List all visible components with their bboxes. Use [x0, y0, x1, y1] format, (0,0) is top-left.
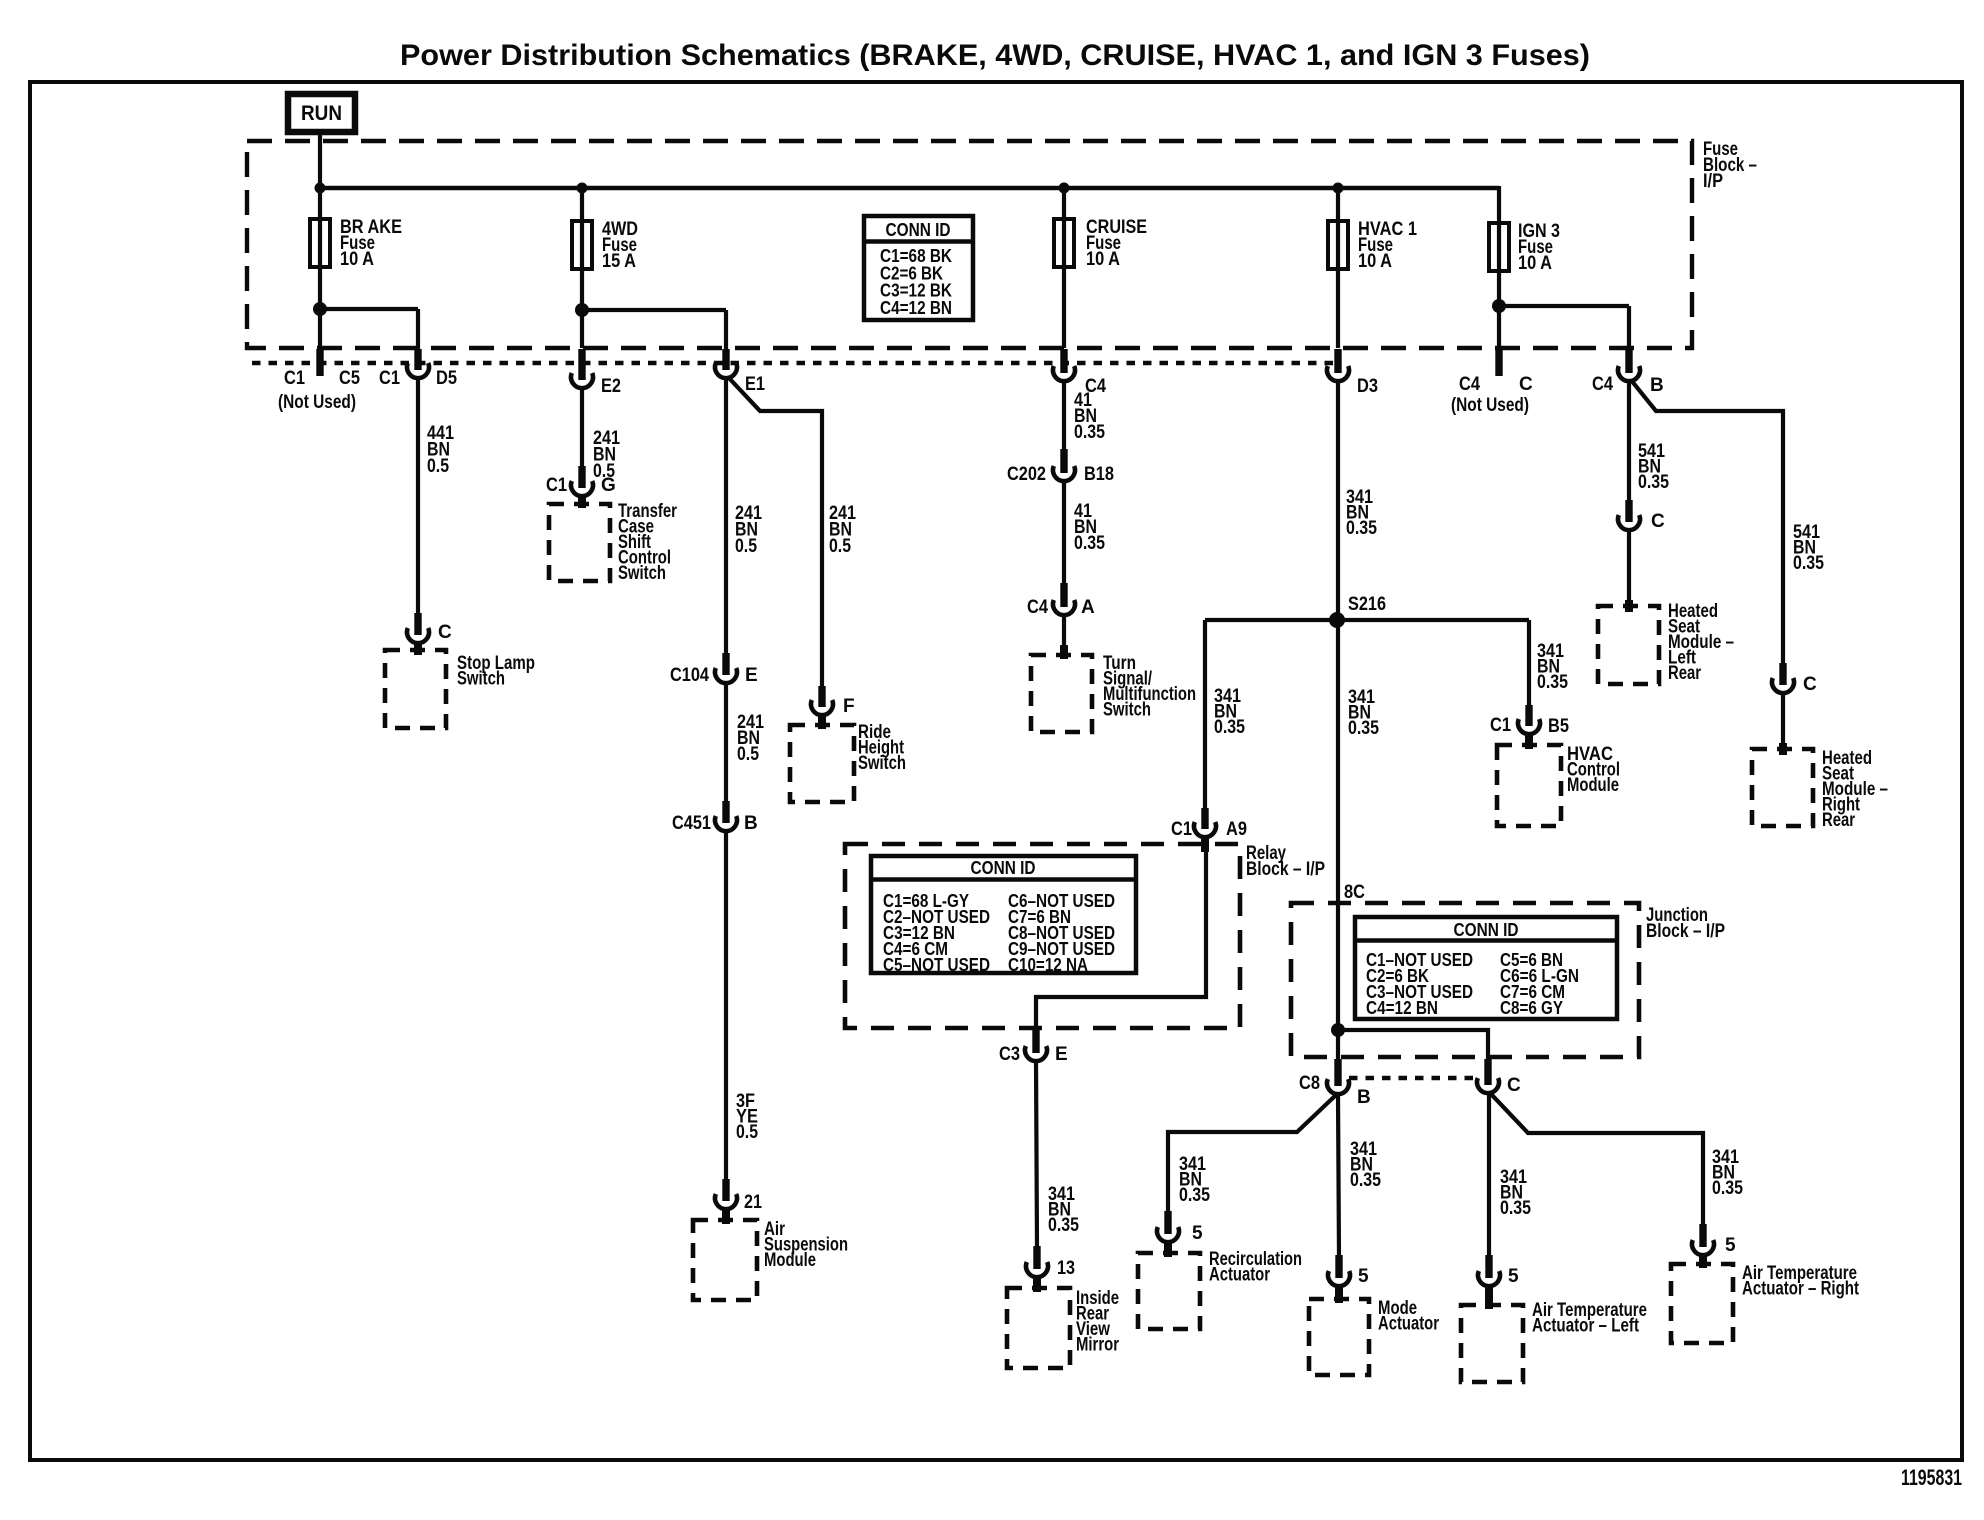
- pin stub into heated seat right: [1779, 743, 1787, 755]
- connector C4 A: [1053, 583, 1075, 615]
- CONN ID table fuse block: [864, 216, 973, 320]
- label 341 BN 0.35: [1500, 1167, 1531, 1219]
- svg-text:5: 5: [1358, 1266, 1369, 1287]
- svg-text:C1: C1: [379, 368, 400, 389]
- connector C451 B: [715, 801, 737, 831]
- connector C202 B18: [1053, 449, 1075, 481]
- label Air Suspension Module: [764, 1219, 848, 1271]
- svg-text:0.35: 0.35: [1179, 1185, 1210, 1206]
- svg-text:Switch: Switch: [457, 669, 505, 690]
- label 341 BN 0.35: [1346, 487, 1377, 539]
- connector F ride height: [811, 686, 833, 715]
- component Mode Actuator: [1309, 1299, 1369, 1375]
- svg-text:A9: A9: [1226, 819, 1247, 840]
- connector D3 (fuse block): [1327, 349, 1349, 381]
- svg-text:C: C: [1519, 374, 1533, 395]
- label Mode Actuator: [1378, 1298, 1439, 1335]
- svg-text:C3: C3: [999, 1044, 1020, 1065]
- bus wire inside fuse block: [318, 186, 1499, 190]
- dotted junction block connector line: [1349, 1076, 1477, 1080]
- connector pin 5 air temp right: [1692, 1224, 1714, 1255]
- svg-text:Rear: Rear: [1822, 810, 1855, 831]
- svg-text:0.35: 0.35: [1712, 1178, 1743, 1199]
- svg-text:0.35: 0.35: [1346, 518, 1377, 539]
- svg-text:5: 5: [1192, 1223, 1203, 1244]
- pin stub into transfer case switch: [578, 496, 586, 508]
- svg-text:(Not Used): (Not Used): [278, 392, 356, 413]
- label Recirculation Actuator: [1209, 1249, 1302, 1286]
- svg-text:C: C: [1507, 1075, 1521, 1096]
- wire into heated seat module left: [1627, 530, 1631, 608]
- connector C1 A9 relay block: [1194, 808, 1216, 837]
- svg-text:0.5: 0.5: [737, 744, 759, 765]
- pin stub C5 not used: [316, 349, 323, 376]
- label HVAC Control Module: [1567, 744, 1620, 796]
- label Junction Block - I/P: [1646, 905, 1725, 942]
- svg-text:C202: C202: [1007, 464, 1046, 485]
- svg-text:CONN ID: CONN ID: [971, 858, 1036, 878]
- connector pin 5 air temp left: [1478, 1255, 1500, 1286]
- svg-text:Module: Module: [764, 1250, 816, 1271]
- junction dot inside junction block: [1331, 1023, 1345, 1037]
- svg-text:Block – I/P: Block – I/P: [1646, 921, 1725, 942]
- svg-text:G: G: [601, 475, 616, 496]
- CONN ID table relay block: [871, 856, 1136, 975]
- svg-text:C4=12 BN: C4=12 BN: [1366, 998, 1438, 1018]
- wire HVAC 1 fuse leg: [1336, 188, 1340, 348]
- svg-text:C1: C1: [546, 475, 567, 496]
- pin stub into inside rear view mirror: [1033, 1277, 1041, 1292]
- CONN ID table junction block: [1355, 917, 1617, 1019]
- svg-text:Power Distribution Schematics: Power Distribution Schematics (BRAKE, 4W…: [400, 39, 1590, 72]
- pin stub into stop lamp switch: [414, 643, 422, 655]
- label Inside Rear View Mirror: [1076, 1288, 1119, 1356]
- connector pin 5 mode: [1328, 1255, 1350, 1286]
- svg-text:E1: E1: [745, 374, 765, 395]
- ignition switch RUN feed box: [288, 94, 355, 132]
- svg-text:C1: C1: [1171, 819, 1192, 840]
- wire E2 to transfer case switch: [580, 388, 584, 468]
- svg-text:C4: C4: [1459, 374, 1480, 395]
- wire B to mode actuator: [1338, 1095, 1339, 1257]
- svg-text:CONN ID: CONN ID: [1454, 920, 1519, 940]
- svg-text:B: B: [1357, 1087, 1371, 1108]
- connector pin 13: [1026, 1246, 1048, 1277]
- component Ride Height Switch: [790, 725, 854, 802]
- pin stub into air temp right: [1699, 1255, 1707, 1268]
- svg-text:C8=6 GY: C8=6 GY: [1500, 998, 1563, 1018]
- fuse F HVAC 1 10A: [1328, 221, 1348, 269]
- component HVAC Control Module: [1497, 745, 1561, 826]
- svg-text:10 A: 10 A: [1358, 251, 1392, 272]
- svg-text:Actuator: Actuator: [1209, 1265, 1270, 1286]
- component Air Suspension Module: [693, 1220, 757, 1300]
- connector C junction block: [1477, 1059, 1499, 1093]
- connector E2 (fuse block): [571, 349, 593, 388]
- splice S216: [1329, 612, 1345, 628]
- svg-text:15 A: 15 A: [602, 251, 636, 272]
- wire S216 crossbar: [1205, 618, 1529, 622]
- connector C104 E: [715, 653, 737, 683]
- wire C4 to C202: [1062, 381, 1066, 450]
- label 341 BN 0.35: [1179, 1154, 1210, 1206]
- wire 4WD fuse leg: [580, 188, 584, 348]
- pin stub relay block entry: [1201, 837, 1209, 852]
- svg-text:0.35: 0.35: [1074, 422, 1105, 443]
- svg-text:0.35: 0.35: [1074, 533, 1105, 554]
- label Air Temperature Actuator Right: [1742, 1263, 1860, 1300]
- svg-text:C104: C104: [670, 665, 709, 686]
- svg-text:Actuator: Actuator: [1378, 1314, 1439, 1335]
- wire into heated seat module right: [1781, 693, 1785, 751]
- fuse F IGN 3 10A: [1489, 223, 1509, 271]
- svg-text:B: B: [1650, 375, 1664, 396]
- svg-text:C4: C4: [1027, 597, 1048, 618]
- wire B diagonal to heated seat right rear: [1631, 380, 1783, 665]
- label 341 BN 0.35: [1214, 686, 1245, 738]
- svg-text:D3: D3: [1357, 376, 1378, 397]
- wire into turn signal switch: [1062, 615, 1066, 652]
- label 341 BN 0.35: [1048, 1184, 1079, 1236]
- label 3F YE 0.5: [736, 1091, 758, 1143]
- connector C heated seat left: [1618, 500, 1640, 530]
- svg-text:C4=12 BN: C4=12 BN: [880, 298, 952, 318]
- label 41 BN 0.35: [1074, 501, 1105, 554]
- label BRAKE Fuse 10 A: [340, 217, 402, 270]
- wire C202 to C4 A: [1062, 481, 1066, 584]
- svg-text:C1: C1: [1490, 715, 1511, 736]
- component Air Temperature Actuator - Right: [1671, 1264, 1733, 1343]
- wire CRUISE fuse leg: [1062, 188, 1066, 348]
- label CRUISE Fuse 10 A: [1086, 217, 1147, 270]
- wire junction block crossbar: [1338, 1030, 1488, 1062]
- wire C to air temperature actuator left: [1487, 1094, 1491, 1257]
- component Transfer Case Shift Control Switch: [549, 504, 610, 581]
- svg-text:0.35: 0.35: [1638, 472, 1669, 493]
- connector C heated seat right: [1772, 663, 1794, 693]
- wire inside relay block: [1036, 850, 1206, 1035]
- junction dot bus/BRAKE: [315, 183, 326, 194]
- svg-text:21: 21: [744, 1192, 762, 1213]
- svg-text:I/P: I/P: [1703, 171, 1723, 192]
- svg-text:S216: S216: [1348, 594, 1386, 615]
- svg-text:0.5: 0.5: [829, 536, 851, 557]
- wire D3 down to junction block: [1336, 381, 1340, 1062]
- wire 4WD branch to E1: [582, 310, 726, 352]
- junction dot IGN 3 branch: [1492, 299, 1506, 313]
- wire C3 to inside rear view mirror: [1036, 1061, 1037, 1247]
- svg-text:10 A: 10 A: [1086, 249, 1120, 270]
- label HVAC 1 Fuse 10 A: [1358, 219, 1417, 272]
- svg-text:CONN ID: CONN ID: [886, 220, 951, 240]
- svg-text:10 A: 10 A: [340, 249, 374, 270]
- svg-text:Mirror: Mirror: [1076, 1335, 1119, 1356]
- relay block I/P dashed outline: [845, 844, 1240, 1028]
- pin stub into heated seat left: [1625, 600, 1633, 612]
- label 541 BN 0.35: [1793, 522, 1824, 574]
- label 241 BN 0.5: [593, 428, 620, 482]
- label IGN 3 Fuse 10 A: [1518, 221, 1560, 274]
- wire C to air temperature actuator right: [1491, 1094, 1703, 1226]
- label Relay Block - I/P: [1246, 843, 1325, 880]
- wire from RUN to bus: [318, 132, 322, 190]
- label 4WD Fuse 15 A: [602, 219, 638, 272]
- svg-text:C5–NOT USED: C5–NOT USED: [883, 955, 990, 975]
- label Transfer Case Shift Control Switch: [618, 501, 677, 584]
- svg-text:1195831: 1195831: [1901, 1465, 1962, 1490]
- svg-text:(Not Used): (Not Used): [1451, 395, 1529, 416]
- pin stub into ride height switch: [818, 715, 826, 729]
- svg-text:0.35: 0.35: [1350, 1170, 1381, 1191]
- component Turn Signal / Multifunction Switch: [1031, 655, 1092, 732]
- svg-text:Actuator – Right: Actuator – Right: [1742, 1279, 1860, 1300]
- svg-text:B18: B18: [1084, 464, 1114, 485]
- wire B to heated seat left rear: [1627, 381, 1631, 502]
- svg-text:0.35: 0.35: [1500, 1198, 1531, 1219]
- wire BRAKE fuse leg: [318, 188, 322, 348]
- svg-text:C5: C5: [339, 368, 360, 389]
- svg-text:C10=12 NA: C10=12 NA: [1008, 955, 1088, 975]
- svg-text:C451: C451: [672, 813, 711, 834]
- svg-text:B5: B5: [1548, 716, 1569, 737]
- svg-text:Switch: Switch: [1103, 700, 1151, 721]
- fuse F CRUISE 10A: [1054, 219, 1074, 267]
- connector C8 B junction block: [1327, 1059, 1349, 1094]
- label 541 BN 0.35: [1638, 441, 1669, 493]
- component Heated Seat Module - Left Rear: [1598, 606, 1659, 684]
- svg-text:C: C: [1651, 511, 1665, 532]
- wire E1 main run down: [724, 378, 728, 655]
- label 441 BN 0.5: [427, 423, 454, 477]
- svg-text:Actuator – Left: Actuator – Left: [1532, 1316, 1640, 1337]
- svg-text:C8: C8: [1299, 1073, 1320, 1094]
- svg-text:5: 5: [1725, 1235, 1736, 1256]
- connector C stop lamp: [407, 613, 429, 643]
- svg-text:C1: C1: [284, 368, 305, 389]
- connector pin 5 recirculation: [1157, 1211, 1179, 1242]
- fuse block connector row dotted line: [252, 361, 1338, 365]
- svg-text:0.35: 0.35: [1348, 718, 1379, 739]
- pin stub into HVAC control module: [1525, 734, 1533, 749]
- label 341 BN 0.35: [1712, 1147, 1743, 1199]
- component Heated Seat Module - Right Rear: [1752, 749, 1813, 826]
- label 341 BN 0.35: [1537, 641, 1568, 693]
- label 241 BN 0.5: [829, 503, 856, 557]
- svg-text:E: E: [745, 665, 758, 686]
- wire C451 to air suspension module: [724, 831, 728, 1180]
- component Air Temperature Actuator - Left: [1461, 1305, 1523, 1382]
- fuse F BRAKE 10A: [310, 219, 330, 267]
- svg-text:10 A: 10 A: [1518, 253, 1552, 274]
- pin stub into mode actuator: [1335, 1286, 1343, 1303]
- label Ride Height Switch: [858, 722, 906, 774]
- svg-text:C: C: [438, 622, 452, 643]
- svg-text:0.5: 0.5: [736, 1122, 758, 1143]
- svg-text:C: C: [1803, 674, 1817, 695]
- wire BRAKE branch to D5: [320, 309, 418, 352]
- svg-text:Rear: Rear: [1668, 663, 1701, 684]
- pin stub into air temp left: [1485, 1286, 1493, 1309]
- junction dot bus/CRUISE: [1059, 183, 1070, 194]
- connector C1 B5: [1518, 705, 1540, 734]
- junction dot 4WD branch: [575, 303, 589, 317]
- wire IGN 3 branch to B: [1499, 306, 1629, 352]
- label 341 BN 0.35: [1348, 687, 1379, 739]
- component Stop Lamp Switch: [385, 650, 446, 728]
- label 41 BN 0.35: [1074, 390, 1105, 443]
- wire S216 to relay block: [1203, 620, 1207, 810]
- fuse F 4WD 15A: [572, 221, 592, 269]
- connector C4 (fuse block): [1053, 349, 1075, 381]
- svg-text:Switch: Switch: [618, 563, 666, 584]
- label Air Temperature Actuator Left: [1532, 1300, 1647, 1337]
- junction block I/P dashed outline: [1291, 903, 1639, 1057]
- svg-text:0.35: 0.35: [1793, 553, 1824, 574]
- wire S216 to HVAC control module: [1527, 620, 1531, 707]
- svg-text:0.35: 0.35: [1048, 1215, 1079, 1236]
- svg-text:Module: Module: [1567, 775, 1619, 796]
- junction dot bus/4WD: [577, 183, 588, 194]
- pin stub into recirculation actuator: [1164, 1242, 1172, 1257]
- wire IGN 3 fuse leg: [1497, 186, 1501, 348]
- label 341 BN 0.35: [1350, 1139, 1381, 1191]
- component Inside Rear View Mirror: [1007, 1288, 1070, 1368]
- svg-text:8C: 8C: [1344, 882, 1365, 903]
- label 241 BN 0.5: [737, 712, 764, 765]
- junction dot bus/HVAC 1: [1333, 183, 1344, 194]
- wire C104 to C451: [724, 683, 728, 802]
- label Turn Signal Multifunction Switch: [1103, 653, 1196, 721]
- component Recirculation Actuator: [1138, 1253, 1200, 1329]
- svg-text:B: B: [744, 813, 758, 834]
- label Heated Seat Module Right Rear: [1822, 748, 1888, 831]
- svg-text:0.5: 0.5: [735, 536, 757, 557]
- wire D5 to stop lamp switch: [416, 378, 420, 613]
- svg-text:D5: D5: [436, 368, 457, 389]
- label Stop Lamp Switch: [457, 653, 535, 690]
- connector D5 (fuse block): [407, 349, 429, 378]
- connector C3 E relay block: [1025, 1028, 1047, 1061]
- svg-text:C4: C4: [1592, 374, 1613, 395]
- label 241 BN 0.5: [735, 503, 762, 557]
- svg-text:E: E: [1055, 1044, 1068, 1065]
- pin stub into turn signal switch: [1060, 645, 1068, 659]
- connector E1 (fuse block): [715, 349, 737, 378]
- svg-text:Block – I/P: Block – I/P: [1246, 859, 1325, 880]
- svg-text:13: 13: [1057, 1258, 1075, 1279]
- wire E1 diagonal to ride height branch: [728, 377, 822, 688]
- svg-text:0.35: 0.35: [1537, 672, 1568, 693]
- pin stub into air suspension module: [722, 1209, 730, 1224]
- svg-text:0.35: 0.35: [1214, 717, 1245, 738]
- svg-text:F: F: [843, 696, 855, 717]
- label Fuse Block - I/P: [1703, 139, 1757, 192]
- svg-text:E2: E2: [601, 376, 621, 397]
- connector C1 G transfer case: [571, 466, 593, 496]
- connector C4 B (fuse block): [1618, 349, 1640, 381]
- svg-text:0.5: 0.5: [427, 456, 449, 477]
- pin stub C not used: [1495, 349, 1502, 376]
- svg-text:RUN: RUN: [301, 101, 342, 125]
- connector pin 21: [715, 1179, 737, 1209]
- svg-text:5: 5: [1508, 1266, 1519, 1287]
- label Heated Seat Module Left Rear: [1668, 601, 1734, 684]
- junction dot BRAKE branch: [313, 302, 327, 316]
- wire B to recirculation actuator: [1168, 1095, 1336, 1213]
- fuse block I/P dashed outline: [247, 141, 1692, 348]
- svg-text:Switch: Switch: [858, 753, 906, 774]
- svg-text:A: A: [1081, 597, 1095, 618]
